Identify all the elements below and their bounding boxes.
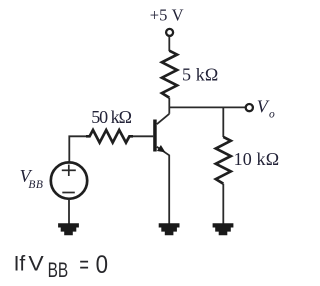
svg-text:BB: BB xyxy=(28,179,43,191)
svg-text:=: = xyxy=(79,251,89,278)
svg-text:5 kΩ: 5 kΩ xyxy=(182,65,218,85)
plus sign xyxy=(62,165,76,176)
transistor Q1 base bar xyxy=(153,120,157,152)
wire from +5V terminal to resistor R1 xyxy=(168,36,170,51)
voltage source VBB circle xyxy=(51,162,87,198)
wire R3 to ground xyxy=(222,184,224,224)
minus sign xyxy=(62,192,75,194)
svg-text:o: o xyxy=(269,108,275,120)
wire output node to R3 xyxy=(222,107,224,137)
svg-text:10 kΩ: 10 kΩ xyxy=(234,149,280,169)
wire R2 to VBB source xyxy=(69,136,86,161)
wire base to R2 xyxy=(133,135,153,137)
transistor Q1 collector lead xyxy=(157,114,170,124)
svg-text:V: V xyxy=(257,96,270,116)
ground under VBB xyxy=(58,223,79,235)
svg-text:If: If xyxy=(14,252,26,275)
resistor R3 10 kOhm xyxy=(216,137,231,184)
terminal +5V xyxy=(166,29,173,36)
svg-text:V: V xyxy=(28,252,43,275)
ground under R3 xyxy=(213,223,234,235)
wire collector node to output xyxy=(169,106,245,108)
svg-text:50 kΩ: 50 kΩ xyxy=(91,107,132,127)
wire from R1 to collector node xyxy=(168,98,170,114)
svg-text:+5 V: +5 V xyxy=(150,6,184,25)
transistor Q1 emitter lead xyxy=(157,147,169,224)
wire VBB to ground xyxy=(68,199,70,224)
resistor R1 5 kOhm xyxy=(162,51,177,98)
caption If VBB = 0 xyxy=(14,251,108,282)
resistor R2 50 kOhm xyxy=(86,130,133,143)
transistor Q1 emitter arrowhead xyxy=(157,145,166,152)
svg-text:BB: BB xyxy=(48,258,69,282)
svg-text:0: 0 xyxy=(96,251,108,279)
ground under emitter xyxy=(159,223,180,235)
terminal Vo xyxy=(246,104,253,111)
